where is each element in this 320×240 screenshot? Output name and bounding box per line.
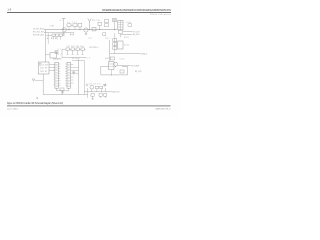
wire lower link bbox=[62, 57, 86, 59]
IC U402 right pins bbox=[71, 65, 79, 84]
ground bottom cluster bbox=[91, 98, 93, 101]
varactor ladder D3 bbox=[113, 39, 117, 42]
svg-text:5T: 5T bbox=[58, 49, 62, 51]
svg-text:PR400 Schematics: PR400 Schematics bbox=[150, 13, 171, 16]
capacitor C73 bbox=[95, 86, 98, 89]
wire feedback loop bbox=[101, 66, 128, 75]
ground left bottom bbox=[86, 83, 88, 85]
svg-text:C421 R4: C421 R4 bbox=[40, 68, 47, 70]
capacitor C76 bbox=[99, 94, 102, 97]
resistor R25 bbox=[128, 24, 132, 27]
resistor R5 bbox=[71, 32, 74, 35]
wire bottom bus bbox=[43, 94, 88, 96]
wire shield drop bbox=[42, 74, 44, 95]
svg-text:C61 C62 C63 C64: C61 C62 C63 C64 bbox=[67, 46, 84, 48]
vco Q5 block bbox=[118, 41, 123, 49]
varactor D1 bbox=[78, 23, 82, 27]
wire L1-C22 bbox=[71, 24, 73, 26]
buffer U3 box bbox=[50, 53, 56, 58]
wire R44 stub bbox=[61, 91, 63, 95]
osc block pins bbox=[109, 64, 115, 67]
test point TP5 bbox=[103, 84, 106, 86]
resistor R44 bbox=[60, 88, 64, 91]
svg-text:6881095C99-O: 6881095C99-O bbox=[156, 109, 172, 111]
wire Y2 drop bbox=[114, 22, 116, 30]
IC U401 left bar bbox=[55, 62, 58, 88]
transistor Q7 bbox=[90, 85, 94, 89]
resistor R65 bbox=[120, 70, 124, 73]
ground IC bbox=[61, 91, 64, 94]
svg-text:C71 Q7 C72: C71 Q7 C72 bbox=[89, 84, 101, 86]
wire cluster verticals bbox=[87, 88, 105, 92]
wire vertical x48 bbox=[47, 33, 49, 44]
svg-text:Q501: Q501 bbox=[105, 58, 110, 60]
mixer U2 block bbox=[118, 20, 123, 29]
wire second net bbox=[44, 32, 70, 34]
svg-text:SYNTH_OUT: SYNTH_OUT bbox=[33, 35, 44, 37]
label marks C-row bbox=[47, 37, 56, 39]
capacitor C63 bbox=[76, 48, 79, 51]
svg-text:16.8M: 16.8M bbox=[42, 64, 49, 66]
svg-text:TP1: TP1 bbox=[88, 38, 92, 40]
tick mark bottom left bbox=[36, 97, 38, 99]
svg-text:RX_VCO: RX_VCO bbox=[133, 34, 140, 36]
resistor R12 bbox=[98, 22, 102, 25]
capacitor C62 bbox=[71, 48, 74, 51]
svg-text:SF_OUT: SF_OUT bbox=[135, 71, 142, 73]
wire osc out bbox=[118, 65, 131, 67]
node junctions main wire bbox=[63, 29, 115, 30]
svg-text:Figure 1-2. PR400 Controller: Figure 1-2. PR400 Controller / RF Schema… bbox=[7, 102, 63, 105]
capacitor C75 bbox=[91, 94, 94, 97]
wire vertical mid bbox=[108, 40, 110, 62]
wire R12 stub bbox=[99, 25, 101, 29]
wire link vertical bbox=[61, 49, 63, 57]
transistor Q2 bbox=[84, 28, 88, 32]
wire vertical feed bbox=[63, 19, 65, 30]
ground under Q1 bbox=[62, 32, 65, 35]
svg-text:June 2004: June 2004 bbox=[7, 109, 18, 111]
footer rule bbox=[7, 105, 171, 108]
wire IF out 2 bbox=[121, 33, 133, 35]
wire right rail 2 bbox=[84, 61, 86, 95]
ground ticks filter bbox=[67, 53, 84, 55]
resistor R13 bbox=[103, 33, 106, 36]
svg-text:5V_RF_REG: 5V_RF_REG bbox=[33, 29, 45, 31]
wire IC bottoms bbox=[57, 88, 69, 91]
svg-text:C9: C9 bbox=[87, 57, 91, 59]
capacitor C74 bbox=[100, 86, 103, 89]
svg-text:L1 C21: L1 C21 bbox=[68, 22, 77, 24]
resistor R22 bbox=[105, 24, 109, 27]
ground right bottom bbox=[104, 83, 106, 85]
IC U402 left pins bbox=[65, 64, 67, 86]
wire ladder spine bbox=[114, 38, 116, 54]
wire U3 in bbox=[45, 54, 50, 56]
capacitor C77 bbox=[104, 94, 107, 97]
crystal Y2 bbox=[113, 19, 117, 22]
varactor ladder D4 bbox=[113, 43, 117, 46]
resistor R21 bbox=[105, 20, 109, 23]
svg-text:VCTRL_V: VCTRL_V bbox=[140, 54, 148, 56]
svg-text:C301: C301 bbox=[126, 22, 131, 24]
crystal X1 mark bbox=[55, 51, 58, 54]
svg-text:MOD_IN: MOD_IN bbox=[112, 92, 120, 94]
svg-text:R7: R7 bbox=[58, 54, 62, 56]
svg-text:C510: C510 bbox=[120, 58, 125, 60]
wire net out bottom bbox=[110, 91, 112, 93]
IC U401 left pins bbox=[54, 65, 55, 85]
wire cluster stubs down bbox=[87, 92, 105, 99]
svg-text:SCHEMATIC DIAGRAMS, COMPONENT: SCHEMATIC DIAGRAMS, COMPONENT LOCATION D… bbox=[102, 9, 172, 12]
resistor R61 bbox=[110, 57, 114, 60]
svg-text:C1 R2: C1 R2 bbox=[50, 26, 55, 28]
svg-text:U401 ASFIC: U401 ASFIC bbox=[53, 58, 62, 61]
test point TP3 bbox=[32, 79, 35, 81]
capacitor C410 bbox=[72, 70, 75, 74]
wire steering line bbox=[110, 53, 140, 55]
wire IF out 1 bbox=[123, 31, 133, 33]
svg-text:B+: B+ bbox=[60, 20, 64, 22]
wire stubs to main bbox=[69, 27, 80, 30]
capacitor C12 bbox=[56, 34, 59, 36]
svg-text:1-6: 1-6 bbox=[7, 7, 11, 11]
svg-text:C52 R53 L2: C52 R53 L2 bbox=[89, 47, 99, 49]
svg-text:R31: R31 bbox=[106, 38, 110, 40]
svg-text:R11 C31: R11 C31 bbox=[92, 20, 100, 22]
capacitor C64 bbox=[81, 48, 84, 51]
wire bottom cluster main bbox=[84, 91, 110, 93]
wire top pins bbox=[72, 60, 85, 62]
node loop junctions bbox=[111, 66, 116, 76]
capacitor C11 bbox=[52, 34, 55, 36]
wire filter row link bbox=[62, 48, 86, 50]
svg-text:RX_INJ_FLT: RX_INJ_FLT bbox=[33, 32, 44, 34]
capacitor C61 bbox=[66, 48, 69, 51]
svg-text:Q502: Q502 bbox=[124, 44, 129, 46]
wire cluster link vertical bbox=[115, 33, 121, 38]
wire loop stub bbox=[110, 70, 112, 75]
IC U401 right pins bbox=[58, 64, 60, 86]
wire right rail bbox=[78, 59, 80, 95]
node feed tee bbox=[62, 18, 66, 20]
mixer U2 pins bbox=[118, 20, 123, 29]
wire vertical bus left bbox=[44, 30, 46, 62]
svg-text:C422 R5: C422 R5 bbox=[40, 71, 47, 73]
wire cap stubs bbox=[54, 36, 61, 39]
shield box Y401 bbox=[38, 62, 49, 74]
wire shield to IC bbox=[49, 65, 55, 71]
filter FL1 bbox=[92, 28, 96, 31]
crystal Y401 bbox=[39, 63, 41, 65]
varactor ladder D5 bbox=[113, 47, 117, 50]
header rule bbox=[7, 11, 171, 14]
svg-text:IF_OUT: IF_OUT bbox=[133, 31, 140, 33]
capacitor C22 bbox=[73, 24, 77, 27]
antenna E1 bbox=[88, 18, 91, 29]
inductor L1 bbox=[67, 24, 71, 27]
wire third net bbox=[46, 34, 65, 36]
IC U402 right bar bbox=[67, 62, 71, 88]
ground under Q2 bbox=[85, 32, 88, 35]
svg-text:VCO_BUF: VCO_BUF bbox=[131, 65, 139, 67]
osc block U5 bbox=[109, 62, 115, 70]
capacitor C13 bbox=[59, 34, 62, 36]
wire TP3 link bbox=[35, 80, 43, 82]
wire main RX line bbox=[44, 29, 117, 31]
capacitor C41 bbox=[118, 31, 122, 34]
svg-text:R303: R303 bbox=[124, 37, 129, 39]
transistor Q1 bbox=[62, 28, 66, 32]
wire filter stubs bbox=[68, 51, 83, 55]
transistor Q6 bbox=[114, 62, 118, 66]
